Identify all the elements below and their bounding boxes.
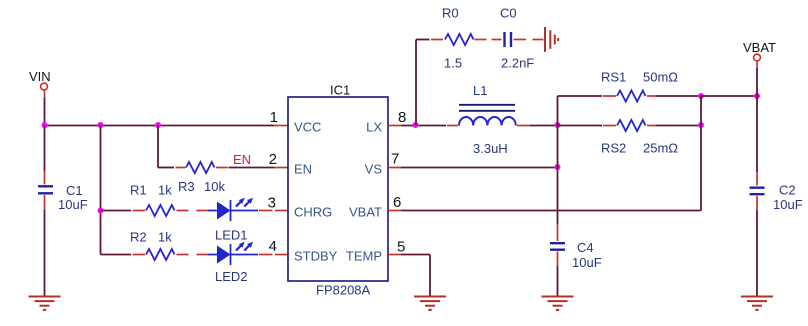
svg-text:VBAT: VBAT xyxy=(743,40,776,55)
svg-text:FP8208A: FP8208A xyxy=(316,283,371,298)
svg-text:R0: R0 xyxy=(442,6,459,21)
LED LED2 xyxy=(208,242,258,284)
pin 5 stub xyxy=(388,254,401,256)
wire node up to RS1 row xyxy=(557,96,559,126)
resistor R3 xyxy=(178,162,225,194)
ground C1 xyxy=(29,297,61,310)
wire L1 to node xyxy=(517,125,530,127)
ground C4 xyxy=(542,297,574,310)
node VBAT line junction xyxy=(754,93,760,99)
svg-text:25mΩ: 25mΩ xyxy=(643,141,678,156)
capacitor C2 xyxy=(750,172,803,212)
svg-text:LED1: LED1 xyxy=(215,228,248,243)
wire branch1 to R1 xyxy=(101,210,132,212)
svg-text:L1: L1 xyxy=(473,83,487,98)
svg-text:1k: 1k xyxy=(158,230,172,245)
node VS junction xyxy=(555,164,561,170)
pin 7 stub xyxy=(388,167,401,169)
resistor R0 xyxy=(442,6,474,71)
svg-text:C4: C4 xyxy=(577,240,594,255)
wire VBAT pin to RS right vertical xyxy=(401,210,701,212)
node VIN rail junction xyxy=(42,122,48,128)
svg-text:RS2: RS2 xyxy=(601,141,626,156)
wire node vertical down to C4 xyxy=(557,126,559,225)
wire C4 to ground xyxy=(557,266,559,297)
node RS2 right junction xyxy=(698,122,704,128)
svg-text:2.2nF: 2.2nF xyxy=(501,56,534,71)
svg-text:1.5: 1.5 xyxy=(444,56,462,71)
wire LED2 to pin 4 xyxy=(259,254,288,256)
svg-text:VIN: VIN xyxy=(29,69,51,84)
resistor R2 xyxy=(130,230,174,261)
wire branch2 vertical xyxy=(157,126,159,168)
wire RS2 row left xyxy=(558,125,603,127)
ground TEMP xyxy=(414,297,446,310)
svg-text:VS: VS xyxy=(365,162,383,177)
wire RS1 row left xyxy=(558,95,603,97)
svg-text:10uF: 10uF xyxy=(572,255,602,270)
wire branch1 vertical xyxy=(100,126,102,255)
node rail branch2 junction xyxy=(155,122,161,128)
svg-text:CHRG: CHRG xyxy=(294,205,332,220)
svg-text:3.3uH: 3.3uH xyxy=(473,141,508,156)
svg-text:8: 8 xyxy=(398,109,406,126)
svg-text:R1: R1 xyxy=(130,183,147,198)
capacitor C1 xyxy=(38,171,88,213)
wire top rail VIN to pin 1 xyxy=(45,125,275,127)
wire C1 branch down xyxy=(44,126,46,171)
wire C0 to ground xyxy=(514,39,544,41)
svg-text:VCC: VCC xyxy=(294,120,321,135)
wire snubber top to R0 xyxy=(416,39,430,41)
wire C2 to ground xyxy=(756,211,758,297)
wire C1 to ground xyxy=(44,210,46,297)
svg-text:IC1: IC1 xyxy=(330,83,350,98)
svg-text:R2: R2 xyxy=(130,230,147,245)
svg-text:EN: EN xyxy=(294,162,312,177)
svg-text:C2: C2 xyxy=(779,183,796,198)
wire RS2 right xyxy=(647,125,656,127)
wire RS1 right xyxy=(647,95,656,97)
op-amp U1 : IC IC1 FP8208A box xyxy=(288,83,388,298)
LED LED1 xyxy=(208,198,258,243)
svg-text:EN: EN xyxy=(233,152,251,167)
pin 1 stub xyxy=(274,125,288,127)
svg-text:2: 2 xyxy=(269,151,277,168)
wire R1 to LED1 xyxy=(177,210,209,212)
svg-text:50mΩ: 50mΩ xyxy=(643,70,678,85)
svg-text:10k: 10k xyxy=(204,179,225,194)
svg-text:STDBY: STDBY xyxy=(294,249,338,264)
node rail branch1 junction xyxy=(98,122,104,128)
svg-text:R3: R3 xyxy=(178,179,195,194)
capacitor C4 xyxy=(550,224,602,270)
svg-text:C0: C0 xyxy=(500,6,517,21)
svg-text:C1: C1 xyxy=(66,183,83,198)
svg-text:VBAT: VBAT xyxy=(349,205,382,220)
wire RS1 junction to VBAT line xyxy=(701,95,757,97)
wire VS to node xyxy=(401,167,558,169)
node L1 output junction xyxy=(555,122,561,128)
svg-text:TEMP: TEMP xyxy=(346,249,382,264)
port VBAT xyxy=(743,40,776,68)
svg-text:10uF: 10uF xyxy=(58,197,88,212)
resistor R1 xyxy=(130,183,174,217)
node LX snubber junction xyxy=(413,122,419,128)
svg-text:4: 4 xyxy=(269,238,277,255)
wire VBAT vertical to C2 xyxy=(756,96,758,172)
node RS1 right junction xyxy=(698,93,704,99)
svg-text:3: 3 xyxy=(268,195,276,212)
wire R3 to pin 2 xyxy=(216,167,229,169)
svg-text:LED2: LED2 xyxy=(215,269,248,284)
wire snubber branch vertical xyxy=(415,40,417,126)
wire R0 to C0 xyxy=(475,39,502,41)
svg-text:10uF: 10uF xyxy=(773,197,803,212)
wire LED1 to pin 3 xyxy=(259,210,288,212)
svg-text:7: 7 xyxy=(391,151,399,168)
svg-text:LX: LX xyxy=(366,120,382,135)
wire VIN vertical to rail xyxy=(44,98,46,126)
wire R2 to LED2 xyxy=(177,254,209,256)
pin 8 stub xyxy=(388,125,401,127)
inductor L1 xyxy=(459,83,516,156)
capacitor C0 xyxy=(500,6,534,71)
svg-text:1k: 1k xyxy=(158,183,172,198)
wire RS right vertical to pin6 row xyxy=(700,96,702,211)
resistor RS2 xyxy=(601,120,678,156)
wire TEMP to ground xyxy=(401,254,430,256)
ground snubber (rotated) xyxy=(545,27,558,52)
svg-text:5: 5 xyxy=(397,239,405,256)
svg-text:RS1: RS1 xyxy=(601,70,626,85)
wire LX to L1 xyxy=(401,125,446,127)
resistor RS1 xyxy=(601,70,678,102)
ground C2 xyxy=(741,297,773,310)
svg-text:1: 1 xyxy=(270,109,278,126)
pin 6 stub xyxy=(388,210,401,212)
wire VBAT vertical upper xyxy=(756,68,758,96)
node branch1 R1 junction xyxy=(98,208,104,214)
svg-text:6: 6 xyxy=(393,194,401,211)
wire branch1 to R2 xyxy=(101,254,132,256)
port VIN xyxy=(29,69,51,98)
wire branch2 to R3 xyxy=(158,167,174,169)
